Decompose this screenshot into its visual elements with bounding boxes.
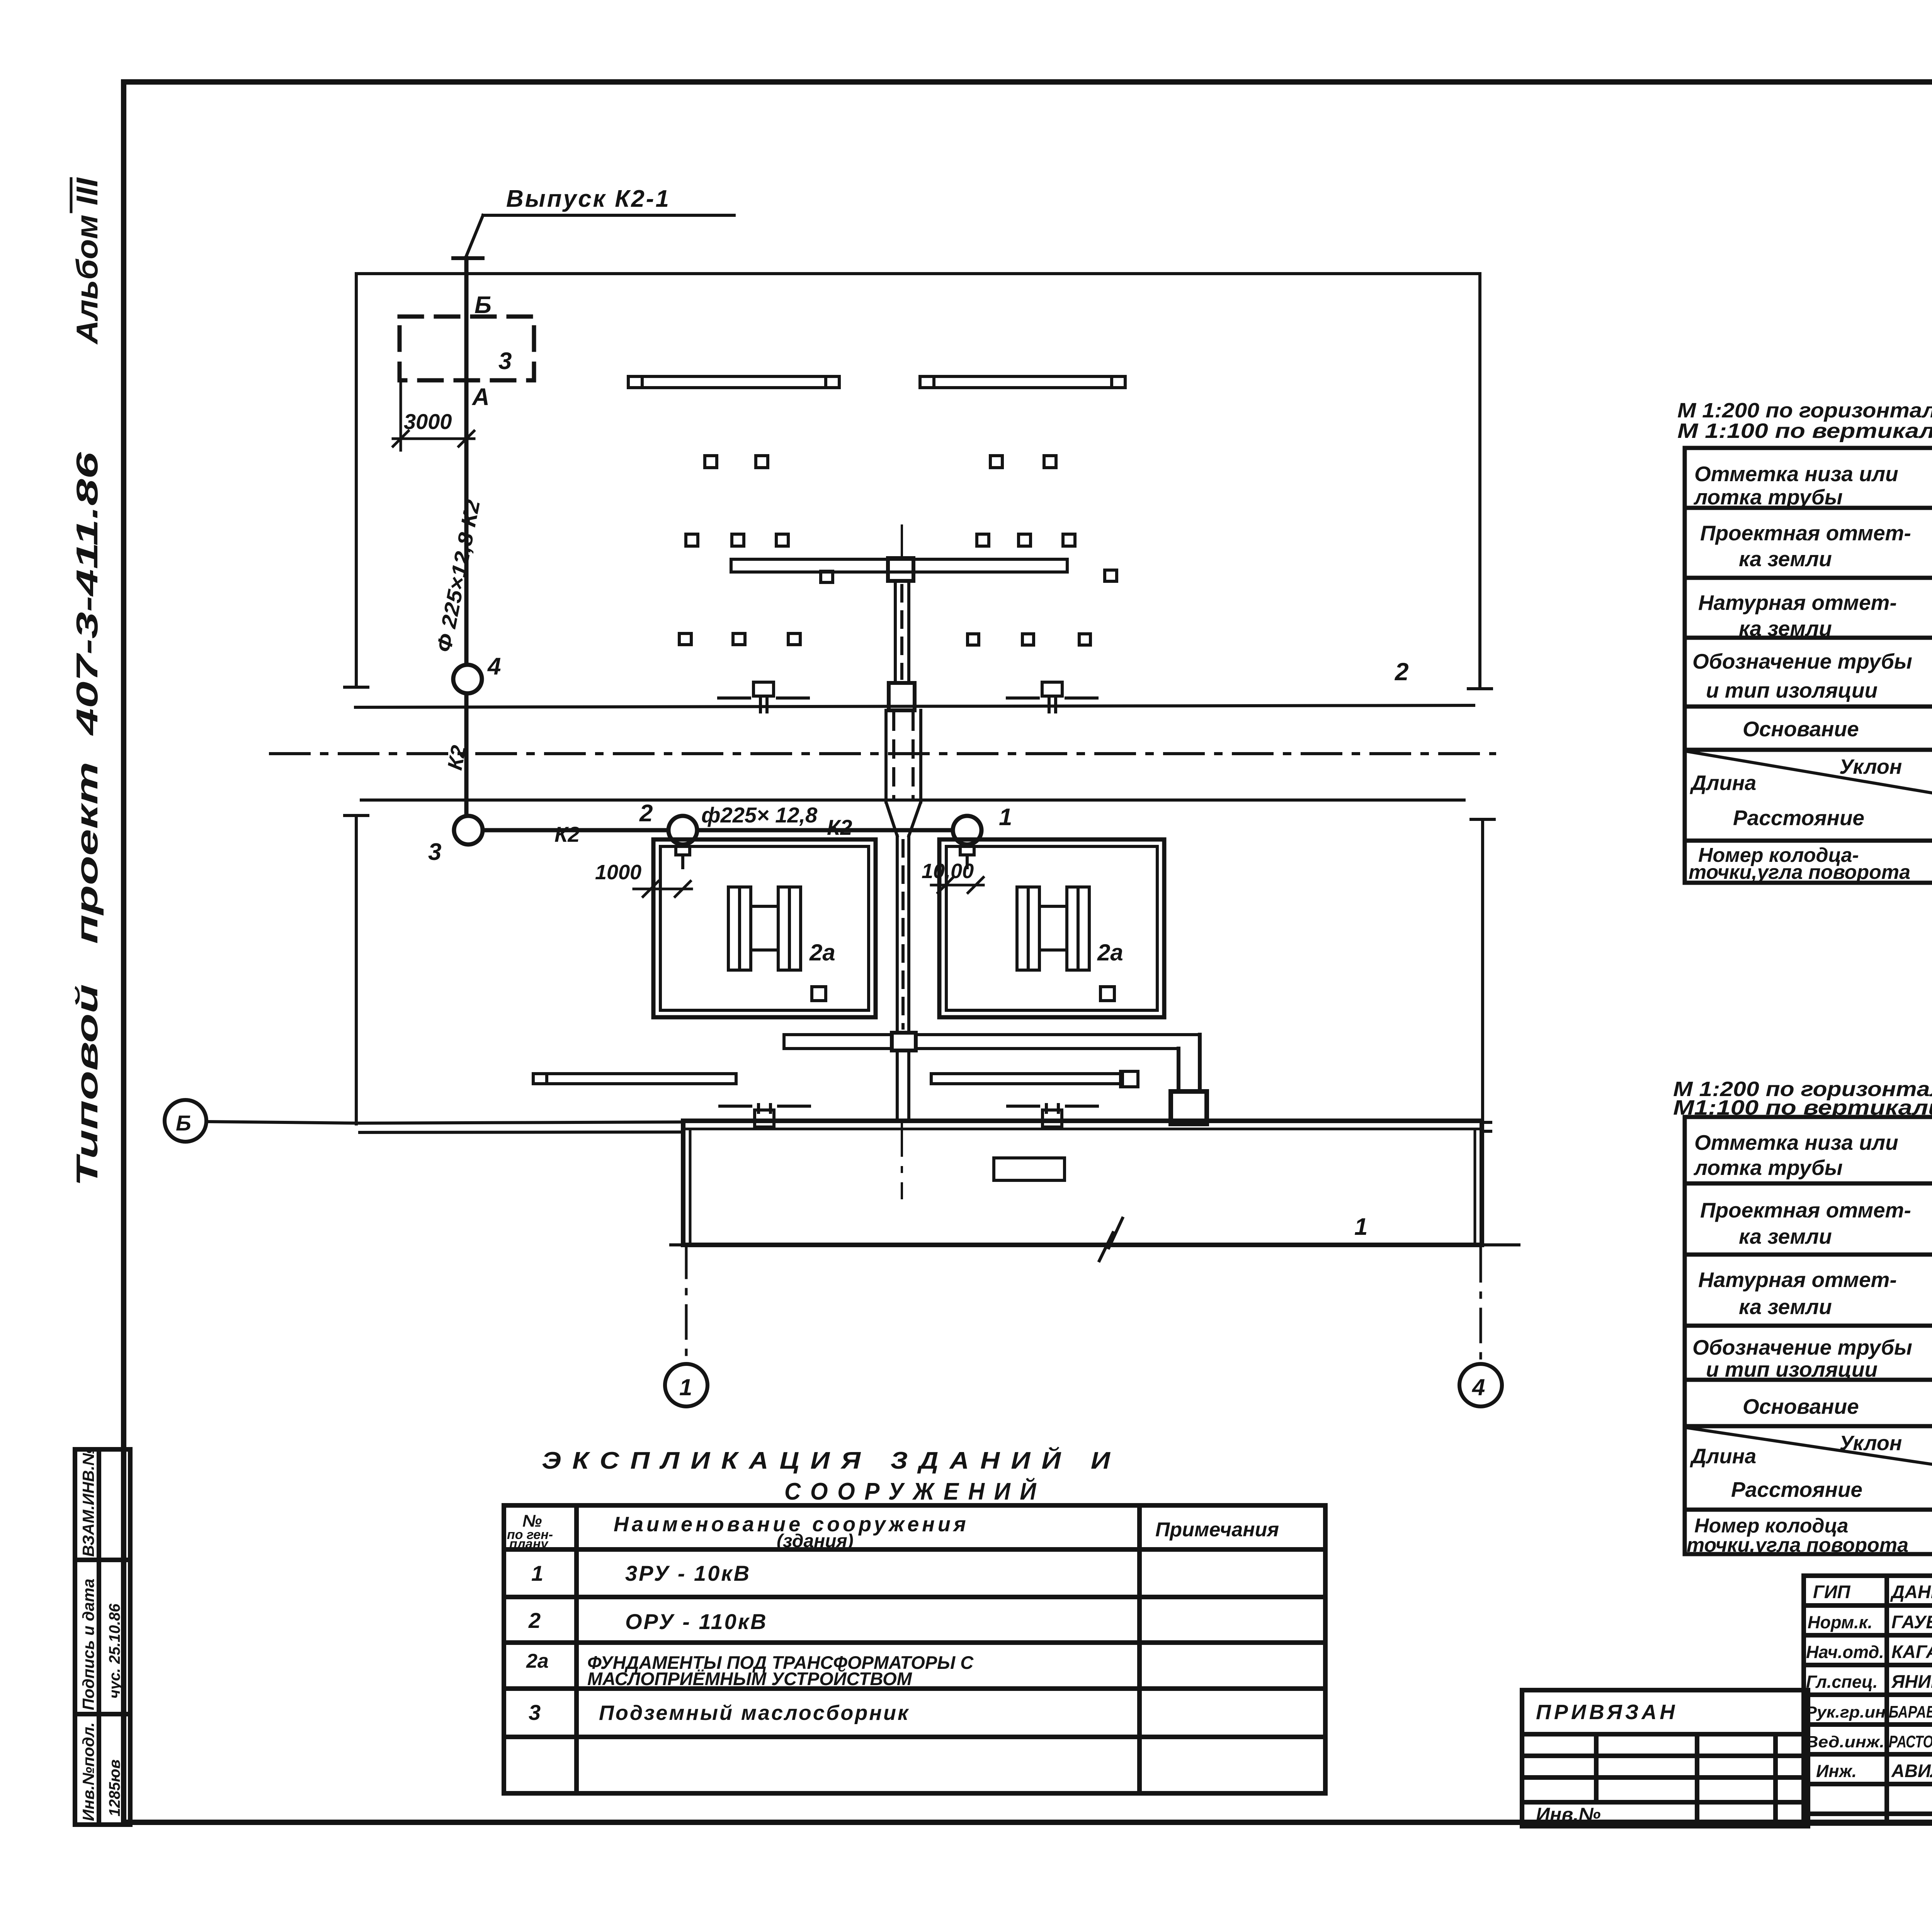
svg-text:Уклон: Уклон (1839, 755, 1902, 778)
foundation 2a right inner (946, 846, 1157, 1010)
pipe K2 horizontal well3-well2 (483, 828, 668, 833)
svg-text:РАСТОРГУЕВА: РАСТОРГУЕВА (1889, 1732, 1932, 1751)
road second edge line (360, 1132, 683, 1132)
cable strip below right foundation (931, 1071, 1138, 1087)
pipe K2 horizontal well2-well1 (697, 828, 953, 833)
svg-text:Отметка низа или: Отметка низа или (1694, 1130, 1898, 1154)
svg-text:4: 4 (487, 653, 501, 680)
svg-text:лотка трубы: лотка трубы (1693, 1156, 1843, 1180)
svg-text:1285юв: 1285юв (106, 1759, 123, 1817)
svg-text:ка земли: ка земли (1739, 1295, 1832, 1319)
svg-text:Основание: Основание (1743, 1394, 1859, 1418)
svg-text:Проектная отмет-: Проектная отмет- (1700, 1198, 1911, 1222)
callout vypusk K2-1 (453, 186, 734, 258)
svg-text:ПРИВЯЗАН: ПРИВЯЗАН (1536, 1701, 1678, 1724)
svg-text:чус. 25.10.86: чус. 25.10.86 (106, 1604, 123, 1699)
lower area right bracket (1471, 819, 1494, 1122)
svg-text:Длина: Длина (1690, 1445, 1756, 1468)
trench joint square 2 (889, 683, 915, 710)
lower area top line (361, 798, 1464, 802)
trench joint square 3 (892, 1033, 916, 1050)
table1 dlina uklon diagonal (1687, 751, 1932, 795)
explication grid (504, 1505, 1325, 1793)
axis circle B left (165, 1100, 206, 1142)
foundation 2a left outer (653, 839, 876, 1017)
svg-text:АВИЛОВА: АВИЛОВА (1891, 1760, 1932, 1781)
bottom-left stamp strip (75, 1449, 130, 1825)
svg-text:Гл.спец.: Гл.спец. (1806, 1672, 1878, 1692)
upper busbar right (920, 376, 1125, 388)
table2 grid (1685, 1117, 1932, 1554)
svg-text:Нач.отд.: Нач.отд. (1806, 1642, 1884, 1662)
privyazan table (1522, 1690, 1808, 1826)
foundation 2a right outer (939, 839, 1164, 1017)
transformer symbol left (728, 887, 801, 970)
svg-text:Проектная отмет-: Проектная отмет- (1700, 521, 1911, 545)
svg-text:2: 2 (528, 1608, 541, 1633)
svg-text:Инв.№подл.: Инв.№подл. (79, 1722, 97, 1821)
inlet square under well 2 (676, 846, 690, 868)
portal center column joint (888, 558, 913, 581)
svg-text:и тип изоляции: и тип изоляции (1706, 678, 1878, 702)
svg-text:2: 2 (639, 800, 653, 827)
L-duct end square (1171, 1091, 1207, 1124)
svg-text:Основание: Основание (1743, 717, 1859, 741)
svg-text:Норм.к.: Норм.к. (1808, 1612, 1872, 1632)
svg-text:Инв.№: Инв.№ (1536, 1804, 1601, 1825)
svg-text:Инж.: Инж. (1816, 1761, 1857, 1781)
svg-text:Альбом III: Альбом III (70, 177, 104, 345)
table2 dlina uklon diagonal label (1687, 1428, 1932, 1466)
svg-text:ЯНИН: ЯНИН (1891, 1671, 1932, 1692)
table1 grid (1685, 448, 1932, 883)
building 1 bottom extension line (671, 1243, 1519, 1246)
road edge right of building (1482, 1122, 1491, 1131)
pipe K2 vertical main (464, 258, 469, 816)
svg-text:К2: К2 (443, 744, 471, 772)
svg-text:4: 4 (1472, 1374, 1485, 1400)
signature table (1804, 1576, 1932, 1823)
svg-text:1: 1 (999, 804, 1012, 831)
ground anchor symbol upper right (1007, 682, 1097, 712)
ORU area left bracket (345, 274, 368, 687)
svg-text:Натурная отмет-: Натурная отмет- (1698, 1268, 1897, 1292)
svg-text:Б: Б (176, 1111, 191, 1135)
transformer symbol right (1017, 887, 1089, 970)
drain square left foundation (812, 987, 826, 1001)
svg-text:Выпуск К2-1: Выпуск К2-1 (506, 186, 670, 212)
lower portal bar left (784, 1035, 892, 1049)
svg-text:1: 1 (531, 1561, 543, 1585)
svg-text:М 1:200 по горизонтали: М 1:200 по горизонтали (1677, 399, 1932, 422)
svg-text:Подпись и дата: Подпись и дата (79, 1579, 97, 1710)
overline over III (70, 179, 73, 212)
central axis line lower dashdot (901, 1121, 903, 1198)
upper busbar left (628, 376, 839, 388)
road axis dash-dot (270, 752, 1495, 755)
svg-text:10,00: 10,00 (922, 860, 974, 883)
svg-text:Вед.инж.: Вед.инж. (1805, 1733, 1884, 1751)
svg-text:3РУ - 10кВ: 3РУ - 10кВ (625, 1561, 751, 1585)
central trench wide section (886, 710, 921, 802)
ground anchor symbol lower left (720, 1105, 810, 1127)
svg-text:ка земли: ка земли (1739, 616, 1832, 640)
axis 4 dash-dot (1480, 1248, 1482, 1364)
svg-text:ГИП: ГИП (1813, 1582, 1851, 1602)
building 1 inner wall lines (689, 1129, 692, 1245)
ground anchor symbol upper left (719, 682, 808, 712)
portal crossbar (731, 559, 1067, 572)
svg-text:1: 1 (679, 1374, 692, 1400)
central trench lower narrow (897, 836, 909, 1033)
leader from B circle to road (206, 1122, 360, 1123)
equipment squares row 3 (679, 633, 1090, 645)
break mark on building bottom (1099, 1218, 1122, 1261)
lower area left bracket (345, 815, 368, 1124)
lower portal bar right (916, 1035, 1200, 1049)
axis circle 1 (665, 1364, 707, 1406)
door recess in building 1 (994, 1158, 1065, 1180)
svg-text:Длина: Длина (1690, 771, 1756, 795)
equipment squares row 2 (686, 534, 1075, 546)
svg-text:и тип изоляции: и тип изоляции (1706, 1357, 1878, 1381)
svg-text:М 1:100 по вертикали: М 1:100 по вертикали (1677, 419, 1932, 443)
svg-text:Обозначение трубы: Обозначение трубы (1692, 1335, 1912, 1359)
svg-text:ка земли: ка земли (1739, 1224, 1832, 1248)
svg-text:Рук.гр.ин: Рук.гр.ин (1805, 1703, 1886, 1721)
ground anchor symbol lower right (1008, 1105, 1097, 1127)
svg-text:ф225× 12,8: ф225× 12,8 (701, 803, 818, 827)
svg-text:Отметка низа или: Отметка низа или (1694, 462, 1898, 486)
svg-text:3: 3 (529, 1700, 541, 1725)
svg-text:ОРУ - 110кВ: ОРУ - 110кВ (625, 1609, 768, 1634)
svg-text:3: 3 (428, 839, 441, 865)
equipment squares row 1 (705, 456, 1056, 468)
central cable trench upper narrow (895, 581, 909, 683)
svg-text:1000: 1000 (595, 861, 641, 884)
ORU area right bracket (1468, 274, 1492, 689)
cable strip below left foundation (533, 1074, 736, 1084)
building 1 inner top line (683, 1128, 1482, 1130)
building 1 ZRU outer (683, 1121, 1482, 1245)
svg-text:Ф 225×12,8 К2: Ф 225×12,8 К2 (432, 498, 485, 654)
well 3 (454, 816, 483, 844)
svg-text:БАРАБАНОВА: БАРАБАНОВА (1889, 1702, 1932, 1721)
ORU area top boundary line (356, 272, 1480, 275)
road upper edge line (360, 1122, 683, 1123)
dimension 1000 right (931, 877, 983, 893)
dimension 3000 (393, 383, 474, 450)
svg-text:Расстояние: Расстояние (1733, 806, 1864, 830)
svg-text:точки,угла поворота: точки,угла поворота (1689, 861, 1910, 884)
svg-text:ГАУБЕ: ГАУБЕ (1891, 1612, 1932, 1632)
dimension 1000 left (634, 881, 692, 897)
svg-text:Натурная отмет-: Натурная отмет- (1698, 591, 1897, 615)
svg-text:(здания): (здания) (777, 1531, 854, 1551)
well 1 (953, 816, 981, 844)
svg-text:Уклон: Уклон (1839, 1432, 1902, 1455)
central axis line (901, 526, 903, 558)
inlet square under well 1 (960, 846, 974, 868)
central trench below joint (897, 1050, 909, 1121)
svg-text:Расстояние: Расстояние (1731, 1478, 1862, 1502)
svg-text:Подземный маслосборник: Подземный маслосборник (599, 1701, 910, 1725)
svg-text:плану: плану (509, 1537, 549, 1551)
foundation 2a left inner (660, 846, 869, 1010)
ORU bottom line (355, 705, 1474, 707)
svg-text:К2: К2 (554, 822, 580, 846)
svg-text:А: А (471, 384, 490, 410)
svg-text:ДАНИЛОВА: ДАНИЛОВА (1890, 1582, 1932, 1602)
squares flanking portal (821, 570, 1117, 582)
axis circle 4 (1459, 1364, 1502, 1406)
svg-text:точки,угла поворота: точки,угла поворота (1687, 1534, 1908, 1556)
svg-text:2а: 2а (1097, 940, 1123, 965)
L-duct vertical (1179, 1035, 1200, 1091)
svg-text:Примечания: Примечания (1155, 1519, 1279, 1541)
svg-text:2а: 2а (809, 940, 835, 965)
axis 1 dash-dot (685, 1245, 688, 1364)
svg-text:СООРУЖЕНИЙ: СООРУЖЕНИЙ (784, 1478, 1046, 1505)
well 4 (453, 665, 482, 693)
svg-text:Типовой проект 407-3-411.86: Типовой проект 407-3-411.86 (70, 452, 104, 1187)
svg-text:К2: К2 (827, 815, 852, 839)
svg-text:ка земли: ка земли (1739, 547, 1832, 571)
trench taper (886, 802, 921, 836)
svg-text:КАГАН: КАГАН (1891, 1641, 1932, 1662)
svg-text:2: 2 (1395, 658, 1409, 686)
drain square right foundation (1100, 987, 1114, 1001)
well 2 (668, 816, 697, 844)
svg-text:Обозначение трубы: Обозначение трубы (1692, 649, 1912, 673)
svg-text:МАСЛОПРИЁМНЫМ УСТРОЙСТВОМ: МАСЛОПРИЁМНЫМ УСТРОЙСТВОМ (587, 1668, 912, 1689)
svg-text:лотка трубы: лотка трубы (1693, 485, 1843, 509)
svg-text:3000: 3000 (404, 409, 452, 434)
building 3 podzemny maslosbornik dashed (400, 317, 534, 380)
svg-text:2а: 2а (526, 1650, 549, 1672)
svg-text:ВЗАМ.ИНВ.№: ВЗАМ.ИНВ.№ (79, 1447, 97, 1557)
svg-text:ЭКСПЛИКАЦИЯ ЗДАНИЙ И: ЭКСПЛИКАЦИЯ ЗДАНИЙ И (542, 1447, 1121, 1474)
svg-text:3: 3 (498, 348, 512, 375)
svg-text:1: 1 (1354, 1214, 1367, 1240)
